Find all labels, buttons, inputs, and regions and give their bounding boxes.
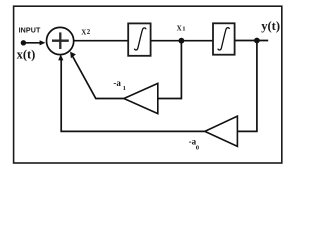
border frame [14, 6, 282, 163]
arrow into summer lower-right [70, 52, 76, 59]
wire y down to gain A0 [237, 41, 257, 132]
wire A0 to summer [61, 60, 205, 132]
summing junction [47, 27, 74, 54]
svg-text:1: 1 [123, 85, 126, 92]
wire summer to integrator U1 [74, 40, 128, 42]
node x1 junction [179, 38, 185, 44]
svg-text:x(t): x(t) [17, 47, 36, 61]
svg-text:X: X [177, 25, 182, 33]
gain -a0 amplifier [205, 116, 238, 146]
label -a0 [189, 137, 200, 152]
wire A1 to summer diagonal [72, 55, 124, 99]
integrator U1 [128, 23, 150, 55]
node input terminal [21, 40, 26, 45]
label -a1 [113, 78, 125, 92]
wire U1 to U2 [151, 40, 213, 42]
svg-text:2: 2 [87, 29, 91, 36]
svg-text:-a: -a [113, 78, 121, 88]
node y junction [254, 38, 260, 44]
wire input arrow [23, 40, 45, 45]
arrow into summer bottom [58, 54, 63, 60]
wire x1 down to gain A1 [158, 41, 182, 99]
svg-text:X: X [81, 28, 86, 36]
integrator U2 [213, 23, 235, 54]
gain -a1 amplifier [124, 83, 158, 113]
svg-text:1: 1 [182, 26, 185, 33]
wire U2 to output [235, 40, 269, 42]
svg-text:INPUT: INPUT [19, 26, 41, 34]
svg-text:y(t): y(t) [261, 19, 280, 33]
